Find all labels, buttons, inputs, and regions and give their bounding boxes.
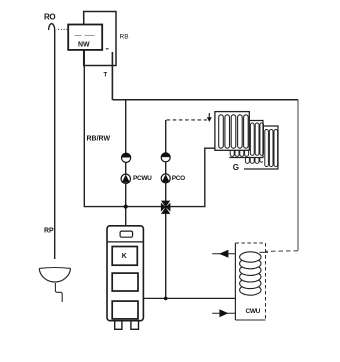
svg-text:G: G (233, 163, 239, 172)
svg-text:RO: RO (44, 13, 55, 22)
svg-text:RB/RW: RB/RW (87, 136, 111, 143)
svg-text:NW: NW (78, 42, 90, 49)
svg-text:RB: RB (120, 34, 129, 41)
svg-text:RP: RP (44, 228, 54, 235)
svg-text:PCO: PCO (172, 175, 185, 182)
svg-text:K: K (122, 253, 127, 260)
svg-text:PCWU: PCWU (133, 175, 152, 182)
svg-text:T: T (104, 73, 108, 79)
svg-text:CWU: CWU (246, 308, 261, 315)
